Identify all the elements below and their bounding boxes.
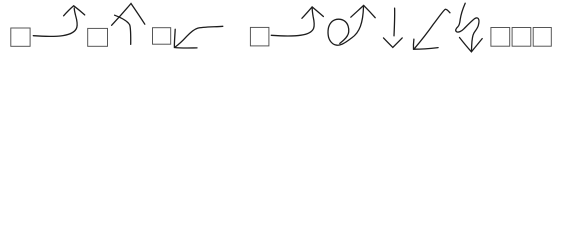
- arrow A8 squiggle shaft: [456, 3, 479, 52]
- arrow A8 head (V down): [460, 38, 483, 52]
- arrow A1 shaft (curved swoosh up): [33, 8, 77, 36]
- box S1: [11, 28, 30, 46]
- arrow A1 head (chevron): [64, 6, 85, 16]
- box S6: [512, 28, 531, 47]
- box S3: [153, 28, 171, 45]
- arrow A3 head (vertical + foot): [174, 29, 197, 48]
- arrow A2 shaft: [115, 15, 131, 44]
- arrow A4 head (chevron): [302, 7, 324, 18]
- arrow A2 head (big chevron): [112, 4, 145, 26]
- arrow A4 shaft (curved swoosh up): [271, 8, 314, 36]
- arrow A6 head (V down): [384, 38, 403, 48]
- box S2: [88, 28, 108, 46]
- arrow A3 shaft (tail + diagonal down-left): [175, 26, 223, 47]
- arrow A7 shaft (diagonal down-left): [414, 9, 450, 49]
- arrow A7 head (vertical + foot): [413, 39, 438, 49]
- arrow A5 pigtail loop and sweep (single stroke): [328, 7, 363, 45]
- arrow A5 head (chevron): [351, 5, 375, 17]
- box S7: [533, 28, 551, 47]
- box S5: [491, 28, 510, 47]
- box S4: [250, 27, 269, 46]
- arrow A6 shaft (straight down): [393, 8, 396, 36]
